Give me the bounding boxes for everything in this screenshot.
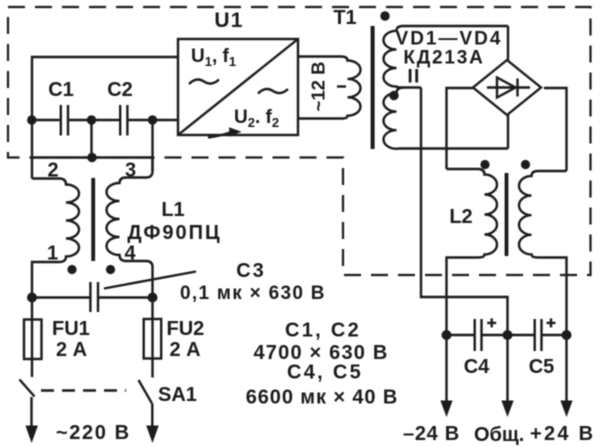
label I (winding) [337,85,346,87]
inductor L1 ДФ90ПЦ [32,158,222,298]
svg-text:2 А: 2 А [56,339,87,361]
capacitor C1 [32,79,92,136]
capacitor C3 [32,260,326,312]
T1 secondary lower winding [384,88,509,149]
node: C1-C2 junction [87,115,96,124]
L2 right winding [519,171,567,335]
wire: T1 secondary top to bridge [507,26,509,60]
transformer T1 [298,7,508,149]
svg-text:U2. f2: U2. f2 [234,107,279,130]
svg-text:4: 4 [124,243,136,265]
node: bus-FU2 junction [148,293,158,303]
svg-text:FU1: FU1 [52,318,90,340]
node: minus rail [442,330,452,340]
svg-text:Общ.: Общ. [474,424,524,446]
wire: right column drop [151,120,153,171]
capacitor C5 [508,318,567,378]
svg-text:~12 В: ~12 В [308,62,329,112]
T1 polarity dot lower [389,91,398,100]
arrow: mains input left [25,403,38,443]
svg-text:T1: T1 [333,7,356,29]
wire: bridge left to L2 and minus rail [447,88,475,169]
label II (winding) [409,69,412,83]
L2 polarity dot left [480,160,489,169]
T1 polarity dot upper [380,11,389,20]
svg-text:1: 1 [47,243,58,265]
svg-text:C4, C5: C4, C5 [287,362,363,384]
U1 tilde lower [258,89,288,94]
dashed enclosure border [8,7,591,275]
fuse FU2 2A [144,298,205,378]
wire: bridge bottom to T1 secondary return [507,115,509,149]
T1 core [371,26,375,149]
svg-text:VD1—VD4: VD1—VD4 [396,29,503,50]
capacitor C2 [92,79,153,136]
arrow: mains input right [146,404,159,444]
svg-text:КД213А: КД213А [403,48,484,69]
arrow: +24V output [560,335,572,417]
svg-text:C2: C2 [107,79,133,101]
svg-text:ДФ90ПЦ: ДФ90ПЦ [127,222,221,244]
arrow: common output [501,335,513,417]
L1 winding 2-1 (left) [32,179,79,298]
L2 core [505,173,509,256]
node: common rail [503,330,513,340]
C3 leader line [104,272,196,289]
wire: center junction drop to L1 bus [90,120,92,158]
wire: bridge right to L2 and plus rail [544,88,567,171]
svg-text:2: 2 [47,160,58,182]
converter U1 [178,9,298,138]
fuse FU1 2A [24,298,90,378]
T1 primary winding I [298,57,361,119]
svg-text:+24 В: +24 В [530,423,595,445]
T1 secondary upper winding [384,26,508,88]
svg-text:C1: C1 [48,79,74,101]
L1 polarity dot right [106,265,115,274]
node: C2 right junction [148,115,157,124]
svg-text:U1, f1: U1, f1 [191,46,236,69]
svg-text:SA1: SA1 [158,384,197,406]
svg-text:6600 мк × 40 В: 6600 мк × 40 В [246,387,399,409]
svg-text:3: 3 [125,160,136,182]
svg-text:U1: U1 [214,9,243,32]
svg-text:L2: L2 [449,206,472,228]
wire: T1 center tap to common output [421,88,508,336]
U1 tilde upper [189,80,219,85]
wire: L1 top bus [32,156,153,158]
switch SA1 [20,380,197,407]
svg-text:C3: C3 [236,260,266,282]
L1 winding 3-4 (right) [107,158,153,298]
svg-text:L1: L1 [161,199,184,221]
wire: left input column to U1 upper input [32,57,178,179]
U1 arrow [208,133,230,138]
node: C1 left junction [27,115,36,124]
svg-text:~220 В: ~220 В [56,422,131,444]
L1 polarity dot left [67,265,76,274]
svg-text:C5: C5 [529,356,555,378]
node: plus rail [562,330,572,340]
svg-text:C1, C2: C1, C2 [285,320,361,342]
L2 polarity dot right [521,160,530,169]
svg-text:2 А: 2 А [170,339,201,361]
arrow: -24V output [440,335,452,417]
inductor L2 [447,160,567,335]
L1 core [91,178,95,261]
wire: C2 to U1 lower input [153,119,179,121]
svg-text:C4: C4 [464,356,490,378]
svg-text:–24 В: –24 В [403,423,460,445]
svg-text:FU2: FU2 [167,318,205,340]
L2 left winding [447,169,497,335]
diode bridge VD1-VD4 КД213А [396,29,541,116]
node: bus-FU1 junction [27,293,37,303]
node: bus junction [87,153,96,162]
capacitor C4 [447,318,508,378]
bridge diode symbol [487,86,530,88]
svg-text:0,1 мк × 630 В: 0,1 мк × 630 В [180,283,326,304]
U1 diagonal [178,39,298,135]
